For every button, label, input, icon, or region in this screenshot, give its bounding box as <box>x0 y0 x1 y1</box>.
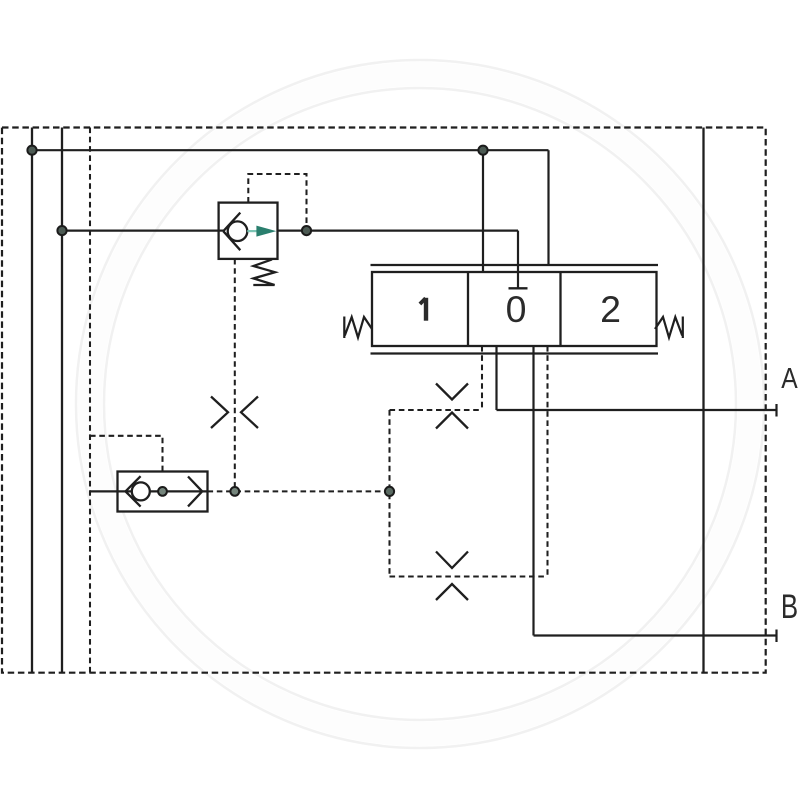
node: junction dot valve feed <box>478 146 487 155</box>
node: junction dot on supply 1 <box>27 146 36 155</box>
port B tick <box>775 630 777 643</box>
pilot dashed: FC1 outlet to node <box>208 490 390 492</box>
pilot dashed: upper horizontal to left <box>390 409 483 411</box>
closed-path symbol (horizontal chevrons) left arrow <box>211 397 228 429</box>
CV1 relief spring <box>253 259 275 285</box>
DV1 bottom rail <box>371 352 659 354</box>
port A tick <box>775 404 777 417</box>
FC1 internal line <box>118 490 208 492</box>
DV1 right spring <box>655 317 683 339</box>
CV1 seat <box>223 213 240 251</box>
watermark ring outer arc <box>76 60 764 748</box>
pilot dashed: lower horizontal to left <box>390 575 548 577</box>
node: junction dot CV1 outlet / pilot <box>302 226 311 235</box>
svg-text:A: A <box>781 362 797 394</box>
node: junction dot drain loop <box>385 487 394 496</box>
plug symbol upper bottom V <box>436 413 468 429</box>
CV1 ball <box>228 221 248 241</box>
DV1 left spring <box>344 317 372 339</box>
enclosure dashed border <box>2 128 766 673</box>
node: junction dot pilot cross <box>230 487 239 496</box>
FC1 flow arrow chevron <box>188 477 202 507</box>
blocked port T cap in box 0 <box>509 287 528 289</box>
svg-text:2: 2 <box>600 288 621 330</box>
CV1 pilot dashed loop <box>248 174 306 226</box>
wire: drop into valve box 0 <box>517 231 519 289</box>
pilot dashed: DV1 right drain down <box>546 346 548 577</box>
DV1 divider 1/0 <box>467 272 469 346</box>
wire: drop from node to valve left port <box>482 150 484 272</box>
node: junction dot on supply 2 <box>57 226 66 235</box>
CV1 inlet stub <box>219 230 225 232</box>
wire: right tank line (vertical) <box>702 128 704 673</box>
wire: DV1 to port B (vertical) <box>532 346 534 636</box>
FC1 ball <box>132 482 150 500</box>
FC1 seat <box>126 476 141 506</box>
DV1 label 1 <box>424 298 428 321</box>
wire: left supply line 2 (vertical) <box>61 128 63 673</box>
wire: top horizontal line y=150 <box>32 149 549 151</box>
svg-text:B: B <box>781 589 798 626</box>
wire: left pilot line (dashed vertical) <box>89 128 91 673</box>
svg-text:0: 0 <box>506 288 527 330</box>
closed-path symbol right arrow <box>241 397 258 429</box>
wire: left supply line 1 (vertical) <box>31 128 33 673</box>
DV1 body boxes <box>372 272 657 346</box>
plug symbol lower top V <box>436 552 468 569</box>
CV1 flow arrow (teal) <box>247 230 258 232</box>
wire: DV1 to port A (vertical) <box>495 346 497 410</box>
node: junction dot inside FC1 <box>158 487 167 496</box>
watermark ring inner arc <box>104 88 736 720</box>
wire: port B horizontal <box>534 634 777 636</box>
check valve CV1 body <box>219 203 278 259</box>
pilot dashed line down from CV1 <box>234 259 236 487</box>
pilot dashed: branch to flow control <box>90 436 163 487</box>
flow control FC1 inlet wire <box>90 490 119 492</box>
plug symbol upper (vertical chevrons) top V <box>436 384 468 400</box>
directional valve DV1 top rail <box>371 264 659 266</box>
FC1 body <box>118 472 208 512</box>
pilot dashed: vertical link <box>388 410 390 577</box>
plug symbol lower bottom V <box>436 584 468 600</box>
pilot dashed: DV1 left drain down <box>481 346 483 410</box>
DV1 divider 0/2 <box>559 272 561 346</box>
wire: drop from y150 to valve right port <box>547 150 549 265</box>
wire: second horizontal line y=230.5 (to check valve) <box>62 230 222 232</box>
wire: check valve outlet to valve center <box>277 230 519 232</box>
wire: port A horizontal <box>497 409 777 411</box>
watermark ring band <box>90 74 750 734</box>
